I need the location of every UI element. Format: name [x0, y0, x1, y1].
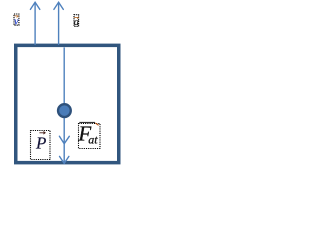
label box P (dotted)	[31, 131, 51, 160]
svg-text:v: v	[14, 16, 19, 27]
vector arrow over P	[39, 132, 45, 135]
svg-text:at: at	[88, 133, 98, 147]
vector arrow over v	[14, 16, 18, 17]
label box v (dotted)	[14, 14, 19, 25]
friction force arrowhead F_at (down, bottom)	[60, 156, 69, 163]
ball	[58, 104, 71, 117]
weight force arrowhead P (down, middle)	[59, 136, 69, 144]
box (elevator container)	[16, 45, 119, 162]
svg-text:P: P	[35, 133, 46, 152]
label P	[35, 133, 46, 152]
label a	[74, 17, 79, 28]
acceleration arrow a (up, right)	[54, 2, 63, 44]
vector arrow over F_at	[79, 122, 98, 125]
label box F_at (dotted)	[79, 124, 101, 149]
label box a (dotted)	[74, 15, 79, 27]
vector arrow over a	[74, 17, 78, 18]
svg-text:a: a	[74, 17, 79, 28]
center vertical line (force line through ball)	[63, 47, 65, 162]
label F with subscript at	[77, 122, 98, 147]
label v	[14, 16, 19, 27]
velocity arrow v (up, left)	[30, 2, 39, 44]
